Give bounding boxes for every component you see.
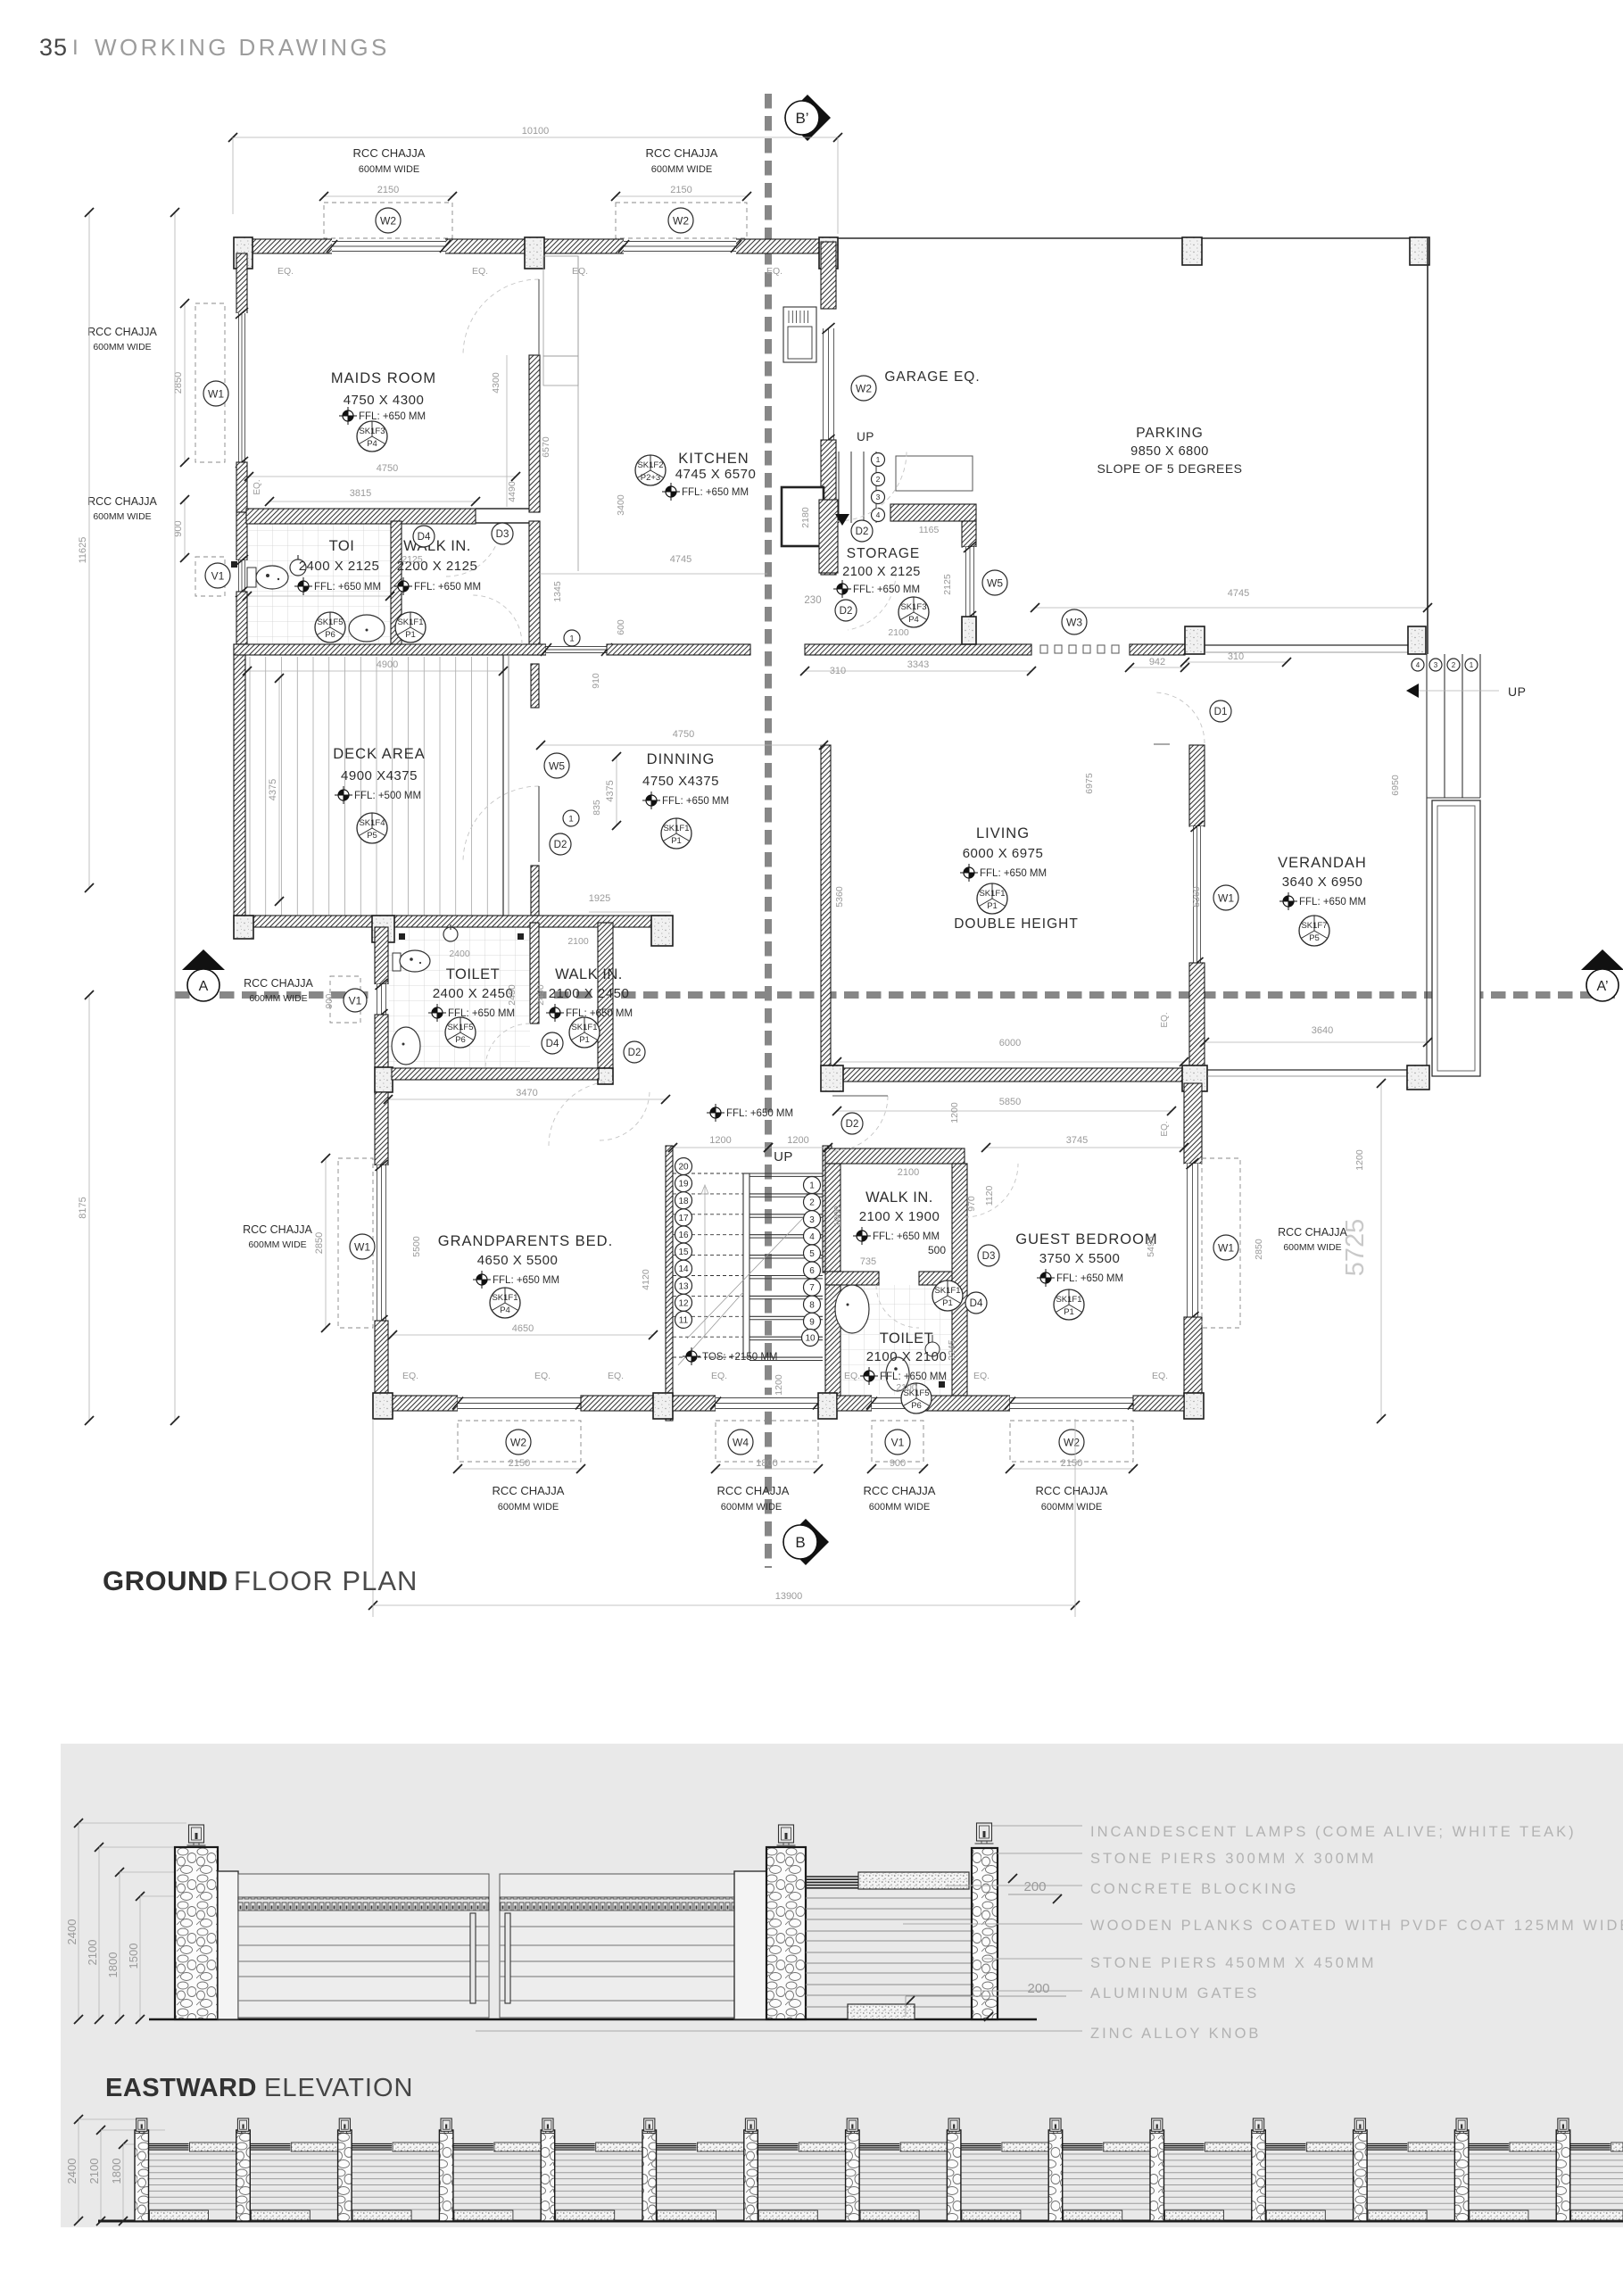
chajja dashed rects below south windows xyxy=(458,1421,581,1462)
column top wall mid xyxy=(525,237,544,269)
svg-text:W2: W2 xyxy=(1064,1436,1080,1448)
window V1 opening (lower toilet) xyxy=(374,984,389,1015)
svg-text:1120: 1120 xyxy=(984,1186,995,1206)
svg-text:W1: W1 xyxy=(208,387,224,400)
column SW corner xyxy=(373,1393,393,1419)
svg-text:WOODEN PLANKS COATED WITH: WOODEN PLANKS COATED WITH PVDF COAT 125M… xyxy=(1090,1918,1623,1934)
living west wall xyxy=(821,745,831,1068)
window W2 opening (guest bedroom south) xyxy=(1010,1395,1133,1412)
svg-text:A: A xyxy=(199,979,209,994)
gate left handle xyxy=(470,1913,476,2003)
south exterior wall segments xyxy=(393,1396,458,1411)
svg-text:1200: 1200 xyxy=(787,1135,808,1146)
svg-text:KITCHEN: KITCHEN xyxy=(678,451,749,467)
svg-text:W2: W2 xyxy=(510,1436,526,1448)
svg-text:SK1F1: SK1F1 xyxy=(663,824,689,833)
svg-text:4900: 4900 xyxy=(377,659,398,670)
west exterior wall upper (maids room) xyxy=(236,253,247,316)
svg-text:EQ.: EQ. xyxy=(472,266,488,277)
svg-text:970: 970 xyxy=(966,1196,977,1212)
svg-text:EQ.: EQ. xyxy=(534,1371,551,1381)
H3 band storage/parking south segment xyxy=(805,644,1031,655)
svg-text:2: 2 xyxy=(876,475,881,484)
svg-text:UP: UP xyxy=(774,1149,793,1165)
chajja dashed rect top W2 left xyxy=(324,203,452,238)
svg-text:17: 17 xyxy=(678,1214,689,1223)
svg-text:600: 600 xyxy=(616,619,626,635)
svg-text:6000 X 6975: 6000 X 6975 xyxy=(963,846,1044,861)
svg-text:1900: 1900 xyxy=(832,1206,843,1227)
svg-text:11: 11 xyxy=(679,1316,689,1326)
column verandah SE xyxy=(1407,1065,1429,1090)
svg-text:5: 5 xyxy=(809,1249,815,1259)
svg-text:230: 230 xyxy=(804,595,821,606)
main wall band below toilets/walk-in + dining north (H3) xyxy=(234,644,546,655)
left overall dims xyxy=(88,212,90,888)
svg-text:1: 1 xyxy=(809,1181,815,1191)
garage door steps xyxy=(838,452,840,523)
guest toilet WC xyxy=(886,1357,909,1391)
gate concrete pier 3 xyxy=(734,1871,766,2019)
svg-text:600MM WIDE: 600MM WIDE xyxy=(869,1502,930,1513)
svg-text:4: 4 xyxy=(876,510,881,519)
column at D1 door west xyxy=(1185,626,1205,654)
lower toilet/walk-in separator wall xyxy=(530,923,539,1024)
svg-text:SK1F1: SK1F1 xyxy=(492,1293,518,1303)
guest bedroom east wall upper xyxy=(1184,1083,1202,1164)
svg-text:W1: W1 xyxy=(1218,891,1234,904)
svg-text:RCC CHAJJA: RCC CHAJJA xyxy=(864,1484,936,1497)
kitchen sink fixture xyxy=(783,307,816,362)
upper toilet / walk-in separator wall xyxy=(391,521,402,644)
svg-text:2100 X 2125: 2100 X 2125 xyxy=(842,565,921,579)
svg-text:7: 7 xyxy=(809,1283,815,1293)
svg-text:3640: 3640 xyxy=(1312,1025,1333,1036)
svg-text:ELEVATION: ELEVATION xyxy=(264,2074,413,2102)
column south wall at stair east xyxy=(818,1393,837,1419)
svg-text:FFL: +650 MM: FFL: +650 MM xyxy=(880,1372,947,1382)
svg-text:FFL: +650 MM: FFL: +650 MM xyxy=(853,584,920,595)
window W1 opening (guest east) xyxy=(1184,1164,1201,1317)
window V1 opening (guest toilet south) xyxy=(872,1395,923,1412)
window W5 opening (storage east) xyxy=(963,547,977,617)
svg-text:3640 X 6950: 3640 X 6950 xyxy=(1282,874,1363,890)
upper toilet shower symbol xyxy=(290,559,306,576)
lower walkin D2 door arc xyxy=(549,1082,613,1146)
svg-text:2850: 2850 xyxy=(314,1232,325,1254)
storage window circles xyxy=(982,570,1007,595)
deck-dining separator wall lower stub xyxy=(531,866,539,916)
svg-text:9: 9 xyxy=(809,1317,815,1327)
svg-text:W2: W2 xyxy=(856,382,872,394)
svg-text:W1: W1 xyxy=(1218,1241,1234,1254)
svg-text:3: 3 xyxy=(1434,661,1438,669)
svg-text:4900 X4375: 4900 X4375 xyxy=(341,768,418,783)
svg-text:1200: 1200 xyxy=(1354,1149,1365,1171)
svg-text:2125: 2125 xyxy=(942,574,953,595)
stair step numbers right 1-9 xyxy=(804,1177,821,1194)
svg-text:600MM WIDE: 600MM WIDE xyxy=(359,164,419,175)
svg-text:3750 X 5500: 3750 X 5500 xyxy=(1039,1251,1121,1266)
svg-text:FFL: +650 MM: FFL: +650 MM xyxy=(726,1108,793,1119)
svg-text:2: 2 xyxy=(1452,661,1456,669)
svg-text:W5: W5 xyxy=(987,576,1003,589)
kitchen east wall lower segment xyxy=(821,440,836,575)
svg-text:1: 1 xyxy=(569,634,574,643)
kitchen counter along west wall xyxy=(543,256,578,356)
lower toilet south wall xyxy=(392,1068,599,1080)
svg-text:PARKING: PARKING xyxy=(1136,426,1204,441)
maids room entry door arc xyxy=(463,279,539,355)
svg-text:2400 X 2450: 2400 X 2450 xyxy=(433,986,514,1001)
storage D2 labels xyxy=(835,514,849,526)
parking east boundary line xyxy=(1427,238,1428,654)
svg-text:SK1F2: SK1F2 xyxy=(637,460,663,470)
lower-left block west wall xyxy=(375,927,388,984)
hall D2 door arc right xyxy=(832,1096,888,1151)
svg-text:2150: 2150 xyxy=(509,1458,530,1469)
svg-text:TOS: +2150 MM: TOS: +2150 MM xyxy=(702,1352,777,1363)
verandah entry steps xyxy=(1426,654,1428,798)
svg-text:EQ.: EQ. xyxy=(766,266,783,277)
kitchen east wall upper segment xyxy=(821,242,836,309)
svg-text:18: 18 xyxy=(678,1197,689,1206)
fence elevation ground line xyxy=(98,2220,1623,2223)
svg-text:MAIDS ROOM: MAIDS ROOM xyxy=(331,370,436,386)
lower toilet shower symbol xyxy=(443,927,458,941)
svg-text:B: B xyxy=(795,1534,805,1551)
guest walk-in south wall segments xyxy=(825,1272,879,1285)
room label TOILET (guest) xyxy=(965,1292,987,1314)
lower toilet basin xyxy=(392,1027,420,1065)
svg-text:P1: P1 xyxy=(579,1035,590,1045)
svg-text:1800: 1800 xyxy=(110,2159,123,2184)
svg-text:GUEST BEDROOM: GUEST BEDROOM xyxy=(1015,1231,1157,1247)
svg-text:SK1F1: SK1F1 xyxy=(934,1286,960,1296)
svg-text:W3: W3 xyxy=(1066,616,1082,628)
section marker A left xyxy=(182,949,225,970)
svg-text:4650 X 5500: 4650 X 5500 xyxy=(477,1253,559,1268)
svg-text:EQ.: EQ. xyxy=(608,1371,624,1381)
svg-text:14: 14 xyxy=(678,1264,689,1274)
deck area floor planks xyxy=(249,657,251,916)
svg-text:3470: 3470 xyxy=(516,1088,537,1098)
svg-text:6000: 6000 xyxy=(999,1038,1021,1049)
svg-text:FFL: +650 MM: FFL: +650 MM xyxy=(1299,897,1366,908)
svg-text:2450: 2450 xyxy=(507,984,518,1006)
deck-dining separator wall upper stub xyxy=(531,664,539,708)
upper walk-in east wall xyxy=(529,521,540,655)
svg-text:2100: 2100 xyxy=(888,627,909,638)
svg-text:DECK AREA: DECK AREA xyxy=(333,746,425,762)
column verandah north-east xyxy=(1408,626,1426,654)
gate panel right xyxy=(500,1874,734,2018)
svg-text:TOI: TOI xyxy=(329,538,355,554)
svg-text:1: 1 xyxy=(876,455,881,464)
svg-text:4750 X 4300: 4750 X 4300 xyxy=(344,393,425,408)
svg-text:FFL: +650 MM: FFL: +650 MM xyxy=(414,582,481,593)
svg-text:1345: 1345 xyxy=(552,581,563,602)
svg-text:RCC CHAJJA: RCC CHAJJA xyxy=(493,1484,565,1497)
svg-text:P2+3: P2+3 xyxy=(641,473,660,483)
guest toilet drain xyxy=(939,1381,945,1388)
svg-text:2450: 2450 xyxy=(535,984,546,1006)
svg-text:RCC CHAJJA: RCC CHAJJA xyxy=(244,977,313,990)
door circle D3 guest xyxy=(978,1245,999,1266)
wall section concrete blocking stripes xyxy=(806,1876,858,1877)
svg-text:D3: D3 xyxy=(982,1251,996,1262)
svg-text:1800: 1800 xyxy=(106,1952,120,1978)
deck corner circles 1 xyxy=(564,630,580,646)
west wall toilet section with V1 xyxy=(236,512,247,560)
upper toilet door arc xyxy=(446,521,501,576)
svg-text:EQ.: EQ. xyxy=(253,479,262,494)
guest area dims xyxy=(986,1147,1184,1148)
svg-text:D2: D2 xyxy=(840,606,853,617)
svg-text:V1: V1 xyxy=(349,994,362,1007)
svg-text:FFL: +500 MM: FFL: +500 MM xyxy=(354,791,421,801)
svg-text:2400: 2400 xyxy=(65,1919,79,1945)
door D4 lower toilet arc xyxy=(485,1024,530,1068)
svg-text:3745: 3745 xyxy=(1066,1135,1088,1146)
svg-text:600MM WIDE: 600MM WIDE xyxy=(1283,1242,1341,1253)
svg-text:4750: 4750 xyxy=(377,463,398,474)
svg-text:2100: 2100 xyxy=(87,2159,101,2184)
svg-text:STONE PIERS 300MM X 300MM: STONE PIERS 300MM X 300MM xyxy=(1090,1851,1376,1867)
staircase treads xyxy=(673,1173,743,1174)
svg-text:600MM WIDE: 600MM WIDE xyxy=(1041,1502,1102,1513)
guest toilet tile floor xyxy=(840,1285,952,1396)
column deck SW xyxy=(234,916,253,939)
svg-text:P5: P5 xyxy=(1309,933,1320,943)
svg-text:D1: D1 xyxy=(1214,707,1228,717)
svg-text:WALK IN.: WALK IN. xyxy=(555,966,623,982)
svg-text:P1: P1 xyxy=(405,630,416,640)
column parking north-east corner xyxy=(1410,237,1429,265)
H3 band east segment xyxy=(1130,644,1185,655)
section marker B' top xyxy=(784,95,831,141)
svg-text:GARAGE EQ.: GARAGE EQ. xyxy=(884,369,980,385)
window W2 opening (grandparents south) xyxy=(458,1395,581,1412)
kitchen appliance counter xyxy=(782,487,824,546)
living / verandah separator wall lower xyxy=(1189,963,1205,1068)
svg-text:P4: P4 xyxy=(908,615,919,625)
svg-text:600MM WIDE: 600MM WIDE xyxy=(498,1502,559,1513)
top dimension 10100 xyxy=(233,137,838,138)
column SE corner xyxy=(1184,1393,1204,1419)
svg-text:600MM WIDE: 600MM WIDE xyxy=(651,164,712,175)
svg-text:FFL: +650 MM: FFL: +650 MM xyxy=(314,582,381,593)
svg-text:EQ.: EQ. xyxy=(1160,1012,1170,1027)
svg-text:35: 35 xyxy=(39,34,68,61)
svg-text:4750: 4750 xyxy=(673,729,694,740)
left lower dims xyxy=(88,995,90,1421)
svg-text:W2: W2 xyxy=(380,214,396,227)
svg-text:16: 16 xyxy=(678,1231,689,1240)
lower toilet tile floor xyxy=(388,927,530,1068)
garage storage box xyxy=(896,456,973,491)
svg-text:600MM WIDE: 600MM WIDE xyxy=(248,1239,306,1250)
guest walk-in west wall xyxy=(825,1164,840,1272)
hall dims xyxy=(673,1147,768,1148)
wall below maids room xyxy=(246,509,476,524)
svg-text:P4: P4 xyxy=(500,1305,510,1315)
svg-text:2100: 2100 xyxy=(86,1940,99,1966)
svg-text:2400: 2400 xyxy=(449,949,470,959)
svg-text:SK1F4: SK1F4 xyxy=(359,818,385,828)
svg-text:1500: 1500 xyxy=(127,1944,140,1969)
living / verandah separator wall upper xyxy=(1189,745,1205,826)
svg-text:LIVING: LIVING xyxy=(976,825,1030,841)
svg-text:900: 900 xyxy=(325,993,335,1008)
svg-text:2125: 2125 xyxy=(402,554,423,565)
svg-text:8: 8 xyxy=(809,1300,815,1310)
svg-text:6570: 6570 xyxy=(541,436,551,458)
top exterior wall (maids room / kitchen) xyxy=(234,239,838,253)
chajja dashed rect top W2 right xyxy=(616,203,747,238)
svg-text:EQ.: EQ. xyxy=(572,266,588,277)
svg-text:4745: 4745 xyxy=(670,554,691,565)
guest bedroom east wall lower xyxy=(1184,1317,1202,1393)
maids internal dims xyxy=(249,476,516,477)
svg-text:10100: 10100 xyxy=(522,126,550,137)
door D2 deck-dining arc xyxy=(463,786,539,862)
door circle D1 xyxy=(1210,700,1231,722)
hall TOS label xyxy=(686,1351,697,1362)
stair east wall upper xyxy=(823,1146,832,1272)
staircase stringer xyxy=(743,1173,749,1357)
svg-text:600MM WIDE: 600MM WIDE xyxy=(93,342,151,352)
gate elevation annotations xyxy=(992,1825,1082,1827)
guest toilet towel symbol xyxy=(925,1342,940,1356)
window W2 opening (kitchen) xyxy=(624,238,736,254)
door D2 grandparents arc xyxy=(600,1090,650,1140)
window V1 opening (upper toilet) xyxy=(236,560,248,592)
svg-text:2150: 2150 xyxy=(670,185,691,195)
svg-text:11625: 11625 xyxy=(78,537,88,564)
svg-text:SK1F1: SK1F1 xyxy=(571,1023,597,1032)
upper walkin door arc xyxy=(473,595,522,644)
svg-text:5360: 5360 xyxy=(834,886,845,908)
guest toilet door D4 arc xyxy=(876,1285,919,1328)
svg-text:4375: 4375 xyxy=(605,780,616,801)
svg-text:P1: P1 xyxy=(987,901,998,911)
svg-text:2180: 2180 xyxy=(800,507,811,528)
column storage south-east xyxy=(962,617,976,644)
svg-text:2100 X 1900: 2100 X 1900 xyxy=(859,1209,940,1224)
svg-text:600MM WIDE: 600MM WIDE xyxy=(249,993,307,1004)
svg-text:500: 500 xyxy=(928,1244,946,1256)
svg-text:ZINC ALLOY KNOB: ZINC ALLOY KNOB xyxy=(1090,2026,1261,2042)
parking right 4745 dim xyxy=(1035,607,1428,609)
wall section bottom concrete block xyxy=(848,2004,915,2019)
svg-text:9850 X 6800: 9850 X 6800 xyxy=(1130,444,1209,459)
guest walkin/toilet east wall xyxy=(952,1164,967,1396)
column deck SE xyxy=(651,916,673,946)
svg-text:D2: D2 xyxy=(856,526,869,537)
column south wall at stair west xyxy=(653,1393,673,1419)
svg-text:3: 3 xyxy=(809,1215,815,1225)
svg-text:15: 15 xyxy=(678,1247,689,1257)
svg-text:5495: 5495 xyxy=(1146,1236,1156,1257)
guest toilet bathtub xyxy=(835,1285,869,1333)
storage north L-wall xyxy=(890,504,976,521)
svg-text:RCC CHAJJA: RCC CHAJJA xyxy=(87,326,157,338)
svg-text:600MM WIDE: 600MM WIDE xyxy=(93,511,151,522)
upper toilet tile floor xyxy=(247,521,390,644)
svg-text:P6: P6 xyxy=(911,1401,922,1411)
svg-text:2850: 2850 xyxy=(1254,1239,1264,1260)
storage door arc xyxy=(848,573,896,630)
svg-text:4745: 4745 xyxy=(1228,588,1249,599)
svg-text:I: I xyxy=(72,36,79,60)
svg-text:RCC CHAJJA: RCC CHAJJA xyxy=(717,1484,790,1497)
lower block east wall xyxy=(598,923,613,1068)
gate stone pier 4 xyxy=(766,1847,806,2019)
parking north boundary line xyxy=(838,237,1429,239)
svg-text:SK1F1: SK1F1 xyxy=(397,618,423,627)
svg-text:4490: 4490 xyxy=(507,481,518,502)
svg-text:SLOPE OF 5 DEGREES: SLOPE OF 5 DEGREES xyxy=(1097,461,1242,476)
svg-text:2245: 2245 xyxy=(947,1339,957,1361)
lower toilet WC xyxy=(393,953,401,971)
verandah step numbers 4321 xyxy=(1412,659,1424,671)
wall section concrete band xyxy=(858,1872,969,1889)
floor drains lower toilet xyxy=(399,933,405,940)
svg-text:10: 10 xyxy=(805,1334,816,1344)
svg-text:EQ.: EQ. xyxy=(711,1371,727,1381)
svg-text:EQ.: EQ. xyxy=(973,1371,990,1381)
svg-text:200: 200 xyxy=(1027,1981,1049,1996)
section line B-B (vertical dashed) xyxy=(765,94,772,1568)
window circle W5 dining xyxy=(544,753,569,778)
svg-text:FFL: +650 MM: FFL: +650 MM xyxy=(662,796,729,807)
svg-text:DINNING: DINNING xyxy=(647,751,716,767)
column deck S mid xyxy=(372,916,394,942)
svg-text:SK1F7: SK1F7 xyxy=(1301,921,1327,931)
svg-text:1200: 1200 xyxy=(949,1102,960,1123)
svg-text:STORAGE: STORAGE xyxy=(847,546,921,561)
svg-text:13900: 13900 xyxy=(775,1591,803,1602)
svg-text:12: 12 xyxy=(678,1298,689,1308)
svg-text:TOILET: TOILET xyxy=(446,966,500,982)
svg-text:GROUND: GROUND xyxy=(103,1565,228,1596)
dining dims xyxy=(541,744,824,746)
svg-text:2: 2 xyxy=(809,1198,815,1208)
column below lower block east wall xyxy=(598,1068,613,1084)
svg-text:EQ.: EQ. xyxy=(844,1371,860,1381)
column top wall kitchen east xyxy=(819,237,838,269)
svg-text:EQ.: EQ. xyxy=(277,266,294,277)
svg-text:2400 X 2125: 2400 X 2125 xyxy=(299,559,380,574)
svg-text:V1: V1 xyxy=(211,569,225,582)
svg-text:FFL: +650 MM: FFL: +650 MM xyxy=(359,411,426,422)
svg-text:GRANDPARENTS BED.: GRANDPARENTS BED. xyxy=(438,1233,613,1249)
door circle D3 upper xyxy=(492,523,513,544)
svg-text:4650: 4650 xyxy=(512,1323,534,1334)
svg-text:RCC CHAJJA: RCC CHAJJA xyxy=(243,1223,312,1236)
svg-text:UP: UP xyxy=(1508,684,1526,699)
svg-text:4: 4 xyxy=(1416,661,1420,669)
guest walkin door arc xyxy=(965,1164,1018,1217)
deck east boundary thin lines xyxy=(502,655,504,916)
svg-text:942: 942 xyxy=(1149,657,1165,667)
upper toilet basin xyxy=(349,615,385,642)
living south wall xyxy=(837,1068,1184,1082)
svg-text:3: 3 xyxy=(876,493,881,501)
svg-text:3400: 3400 xyxy=(616,494,626,516)
svg-text:FFL: +650 MM: FFL: +650 MM xyxy=(1056,1273,1123,1284)
